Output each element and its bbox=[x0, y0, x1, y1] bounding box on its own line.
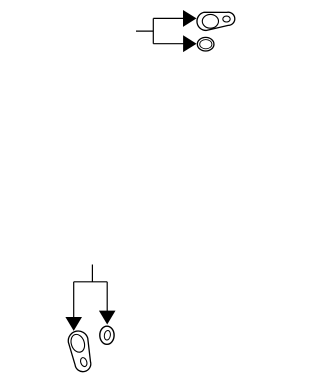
wire: bottom branch to o-ring bbox=[153, 43, 184, 45]
gasket (top): large port hole bbox=[202, 14, 218, 28]
o-ring (bottom): inner bbox=[104, 330, 111, 340]
wire: top-group left stub bbox=[136, 30, 153, 32]
wire: bottom-group horizontal bracket bbox=[74, 281, 108, 283]
arrow to top o-ring bbox=[183, 35, 197, 52]
arrow to top gasket bbox=[183, 10, 197, 27]
o-ring (top): outer bbox=[197, 37, 214, 51]
gasket (bottom): outer outline bbox=[68, 331, 91, 372]
wire: bottom-group top stub bbox=[91, 265, 93, 282]
gasket (top): small bolt hole bbox=[223, 16, 230, 22]
gasket (top): outer outline bbox=[197, 12, 235, 30]
o-ring (bottom): outer bbox=[100, 326, 114, 344]
arrow to bottom gasket bbox=[65, 317, 82, 331]
wire: top branch to gasket bbox=[153, 17, 183, 19]
o-ring (top): inner bbox=[200, 40, 212, 49]
gasket (bottom): small bolt hole bbox=[79, 357, 88, 368]
wire: left branch down to gasket bbox=[73, 282, 75, 318]
wire: right branch down to o-ring bbox=[106, 282, 108, 311]
arrow to bottom o-ring bbox=[99, 311, 116, 325]
wire: top-group vertical bracket bbox=[152, 18, 154, 43]
gasket (bottom): large port hole bbox=[69, 333, 87, 355]
